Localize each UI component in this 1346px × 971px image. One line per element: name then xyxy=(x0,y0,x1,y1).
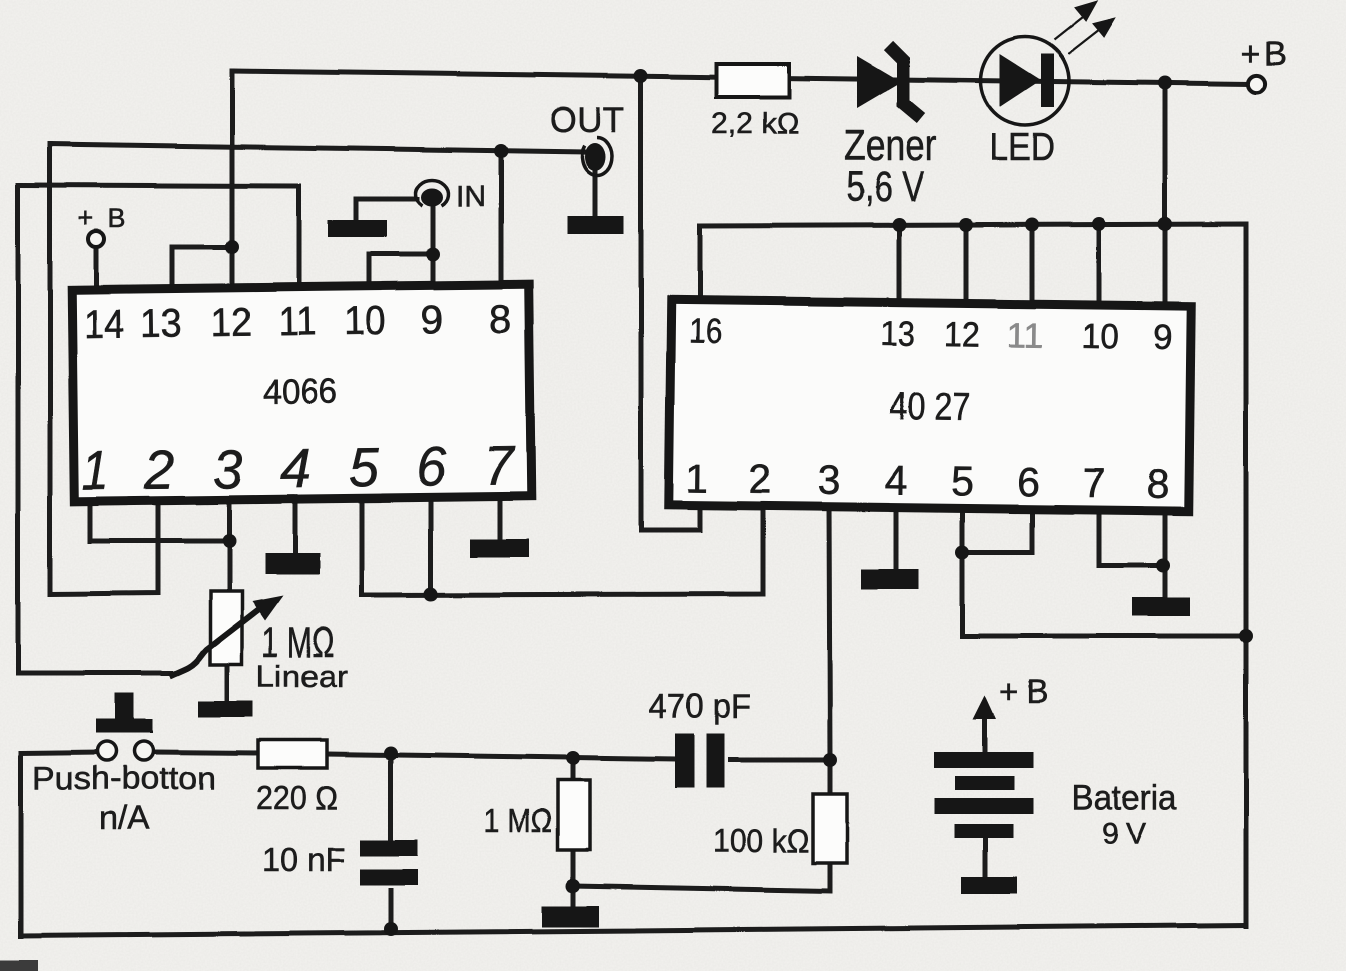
svg-text:5: 5 xyxy=(951,458,974,504)
svg-text:12: 12 xyxy=(210,301,252,345)
svg-text:+ B: + B xyxy=(78,203,126,233)
svg-text:5,6 V: 5,6 V xyxy=(846,163,924,211)
svg-text:7: 7 xyxy=(1082,460,1105,506)
svg-text:IN: IN xyxy=(456,180,486,213)
svg-text:4: 4 xyxy=(884,457,907,503)
svg-text:+ B: + B xyxy=(999,673,1048,710)
svg-text:11: 11 xyxy=(278,300,317,344)
svg-text:1: 1 xyxy=(81,439,109,501)
svg-text:3: 3 xyxy=(817,457,840,503)
svg-text:10: 10 xyxy=(344,299,387,344)
svg-text:10 nF: 10 nF xyxy=(263,841,346,878)
svg-text:16: 16 xyxy=(688,312,721,351)
svg-text:5: 5 xyxy=(349,436,380,498)
svg-text:Bateria: Bateria xyxy=(1072,778,1177,817)
svg-text:1 MΩ: 1 MΩ xyxy=(484,802,553,839)
svg-text:13: 13 xyxy=(140,301,182,345)
svg-text:Push-botton: Push-botton xyxy=(33,760,216,796)
svg-text:14: 14 xyxy=(83,302,125,346)
svg-text:2: 2 xyxy=(748,456,771,502)
svg-text:9: 9 xyxy=(1153,318,1173,357)
svg-text:100 kΩ: 100 kΩ xyxy=(713,823,810,859)
svg-text:n/A: n/A xyxy=(99,799,149,836)
svg-text:40 27: 40 27 xyxy=(889,386,971,430)
svg-text:8: 8 xyxy=(1146,461,1169,507)
svg-text:7: 7 xyxy=(484,434,517,496)
svg-text:1: 1 xyxy=(685,455,708,501)
svg-text:2: 2 xyxy=(143,439,175,501)
svg-text:3: 3 xyxy=(213,438,244,500)
svg-text:6: 6 xyxy=(1016,459,1039,505)
svg-text:2,2 kΩ: 2,2 kΩ xyxy=(711,107,799,140)
svg-text:11: 11 xyxy=(1006,316,1043,355)
svg-text:6: 6 xyxy=(416,435,447,497)
svg-text:+ B: + B xyxy=(1240,35,1286,73)
svg-text:4066: 4066 xyxy=(263,372,337,412)
svg-text:220 Ω: 220 Ω xyxy=(256,779,338,816)
svg-text:9: 9 xyxy=(421,298,444,342)
svg-text:4: 4 xyxy=(280,437,312,499)
svg-text:12: 12 xyxy=(944,315,980,354)
svg-text:470 pF: 470 pF xyxy=(649,688,751,726)
svg-text:LED: LED xyxy=(990,126,1055,169)
svg-text:Linear: Linear xyxy=(256,659,348,694)
svg-text:OUT: OUT xyxy=(550,101,625,140)
svg-text:9 V: 9 V xyxy=(1102,817,1146,850)
svg-text:13: 13 xyxy=(881,314,915,353)
svg-text:10: 10 xyxy=(1081,317,1118,356)
svg-text:8: 8 xyxy=(489,297,512,341)
